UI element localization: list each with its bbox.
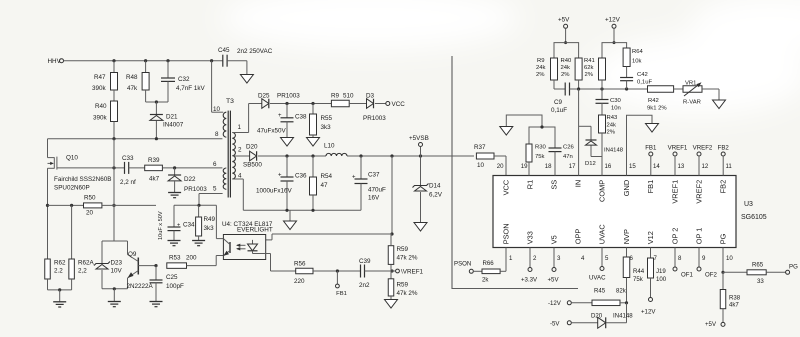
svg-text:SB500: SB500 [243,162,262,169]
svg-text:75k: 75k [535,154,545,160]
svg-text:75k: 75k [633,276,644,283]
svg-text:+: + [278,173,282,179]
svg-text:-5V: -5V [550,321,560,328]
svg-text:47: 47 [321,182,329,189]
svg-text:20: 20 [497,163,504,170]
svg-text:R66: R66 [483,260,495,267]
resistor R64 [623,48,630,67]
wire divider rail [570,88,648,90]
svg-text:2,2: 2,2 [78,268,87,275]
svg-text:17: 17 [569,163,576,170]
ground Q9 [108,301,121,303]
wire C45 to ground [227,60,247,62]
svg-text:+3.3V: +3.3V [521,277,538,284]
svg-text:47uFx50V: 47uFx50V [257,128,287,135]
svg-text:C45: C45 [218,47,230,54]
svg-text:R62: R62 [54,260,66,267]
wire T3 pin10 lead [211,61,213,112]
svg-text:\VREF1: \VREF1 [401,269,424,276]
svg-text:SPU02N60P: SPU02N60P [54,185,90,192]
svg-text:R9: R9 [537,58,545,64]
wire LED pull-up drop [391,156,393,234]
svg-text:12: 12 [702,163,709,170]
svg-text:C32: C32 [178,76,190,83]
svg-text:4k7: 4k7 [729,302,739,309]
wire T3 pin5 lead [199,193,223,195]
wire R48-C32 bottom [146,101,168,103]
wire HHV rail [64,60,223,62]
svg-text:4: 4 [238,173,242,180]
svg-text:+5V: +5V [548,277,560,284]
svg-text:R50: R50 [84,195,96,202]
svg-text:PSON: PSON [502,223,511,244]
resistor R66 [473,270,482,272]
capacitor C42 [626,67,628,78]
svg-text:VREF2: VREF2 [695,180,704,204]
capacitor C32 [167,61,169,78]
svg-text:SS: SS [550,180,559,190]
svg-text:82k: 82k [616,288,627,295]
svg-text:+: + [278,113,282,119]
resistor R62 [45,259,51,279]
svg-text:OP 1: OP 1 [695,228,704,245]
wire source sense rail [47,168,49,259]
svg-text:470uF: 470uF [368,187,386,194]
svg-text:C9: C9 [554,99,563,106]
resistor R56 [296,268,313,274]
svg-text:D12: D12 [585,161,596,167]
resistor R49 [198,205,200,217]
svg-text:L10: L10 [324,143,335,150]
svg-text:R56: R56 [294,261,306,268]
wire T3 pin4 lead [233,178,243,180]
capacitor C34 [168,226,181,228]
svg-text:NVP: NVP [622,229,631,244]
wire GND pin branch [627,115,653,175]
resistor R39 [129,167,145,169]
svg-text:510: 510 [343,93,354,100]
diode D25 [249,103,262,105]
resistor R40 [113,90,115,101]
resistor R38 [722,272,724,289]
resistor R53 [167,263,187,269]
diode D20 IN4148 [571,322,597,324]
node VCC terminal [386,102,390,106]
optocoupler U4 LED [252,240,254,244]
svg-text:D21: D21 [166,114,178,121]
diode D22 [174,168,176,175]
svg-text:390k: 390k [92,85,107,92]
node UVAC terminal [601,248,603,267]
wire T3 pin1 lead [233,132,249,134]
resistor R48 [145,61,147,73]
transformer T3 aux winding [223,168,226,189]
diode D21 [155,102,157,115]
svg-text:10n: 10n [611,106,621,112]
resistor R54 [312,156,314,177]
inductor L10 [326,153,347,156]
svg-text:C37: C37 [368,172,380,179]
capacitor C33 [124,162,126,174]
svg-text:Q10: Q10 [66,155,78,162]
ground C25 [150,301,163,303]
capacitor C30 [601,89,603,100]
svg-text:D25: D25 [258,93,270,100]
svg-text:R55: R55 [321,115,333,122]
svg-text:R41: R41 [584,58,595,64]
svg-text:2N2222A: 2N2222A [127,283,154,290]
svg-text:3k3: 3k3 [204,225,215,232]
svg-text:0,1uF: 0,1uF [637,80,652,86]
svg-text:6,2V: 6,2V [429,192,443,199]
svg-text:R38: R38 [729,295,741,302]
svg-text:OF1: OF1 [681,272,693,279]
zener D23 [101,241,103,264]
svg-text:PG: PG [719,233,728,244]
diode D3 [349,103,366,105]
wire COMP pin line [601,133,603,176]
diode D12 [590,126,592,140]
svg-text:R49: R49 [204,216,216,223]
svg-text:R59: R59 [397,246,409,253]
wire SS branch [506,115,542,144]
svg-text:VREF1: VREF1 [668,145,688,152]
wire R50 row [48,204,84,206]
node OF1 terminal [674,248,676,268]
svg-text:FB1: FB1 [336,291,347,297]
resistor R9 24k [551,58,558,80]
svg-text:R-VAR: R-VAR [683,100,701,106]
svg-text:+5V: +5V [705,321,717,328]
svg-text:+: + [352,175,356,181]
svg-text:10: 10 [477,162,485,169]
svg-text:100: 100 [656,276,667,283]
svg-text:GND: GND [622,180,631,196]
diode D20 SB500 [233,155,250,157]
ground R62 [53,301,66,303]
wire 5VSB row right [347,155,474,157]
resistor R59 upper [388,246,394,265]
node PG terminal [786,270,790,274]
svg-text:33: 33 [757,278,764,285]
svg-text:390k: 390k [93,115,108,122]
svg-text:SG6105: SG6105 [741,214,767,221]
svg-text:11: 11 [726,163,733,170]
ground R49 [192,240,205,242]
wire gate rail [48,138,223,140]
resistor J19 [650,248,652,259]
svg-text:PG: PG [789,264,798,271]
svg-text:18: 18 [545,163,552,170]
node FB1 tap [336,271,338,284]
wire 5V tee [554,43,579,58]
svg-text:Q9: Q9 [128,251,137,258]
svg-text:200: 200 [186,255,197,262]
svg-text:R54: R54 [321,173,333,180]
capacitor C26 [549,147,562,149]
svg-text:OF2: OF2 [705,272,717,279]
svg-text:FB2: FB2 [718,145,730,152]
node OF2 terminal [698,248,700,268]
svg-text:D14: D14 [429,183,441,190]
ground C38 [281,138,294,147]
transformer T3 primary winding [223,112,226,137]
svg-text:100pF: 100pF [166,283,184,290]
svg-text:C38: C38 [295,114,307,121]
resistor R30 [526,144,532,162]
svg-text:47n: 47n [563,154,573,160]
svg-text:V5: V5 [550,235,559,244]
svg-text:R65: R65 [752,262,764,269]
resistor R37 [476,153,494,159]
svg-text:-12V: -12V [548,300,562,307]
svg-text:0,1uF: 0,1uF [551,107,567,114]
svg-text:2: 2 [238,147,242,154]
svg-text:PR1003: PR1003 [184,186,207,193]
svg-text:D20: D20 [246,144,258,151]
svg-text:1: 1 [238,124,242,131]
svg-text:10: 10 [726,255,733,262]
svg-text:IN4148: IN4148 [613,313,633,320]
svg-text:R53: R53 [169,255,181,262]
ground D14 [414,223,427,232]
svg-text:D3: D3 [366,93,375,100]
ground R55 [307,138,320,147]
svg-text:2.2: 2.2 [54,268,63,275]
svg-text:2%: 2% [536,72,545,78]
svg-text:R48: R48 [126,74,138,81]
svg-text:Fairchild SSS2N60B: Fairchild SSS2N60B [54,176,111,183]
svg-text:R30: R30 [535,145,547,151]
svg-text:10V: 10V [111,268,123,275]
wire LED anode run [272,233,392,235]
svg-text:1000uFx16V: 1000uFx16V [256,188,293,195]
resistor R42 [648,86,674,93]
svg-text:FB1: FB1 [646,180,655,194]
svg-text:16: 16 [605,163,612,170]
svg-text:+12V: +12V [641,309,656,316]
svg-text:8: 8 [215,131,219,138]
resistor R47 [113,61,115,73]
svg-text:2%: 2% [607,130,616,136]
svg-text:VREF2: VREF2 [693,145,713,152]
capacitor C39 [360,265,362,278]
svg-text:10uF x 50V: 10uF x 50V [158,211,164,240]
svg-text:UVAC: UVAC [589,275,606,282]
svg-text:10k: 10k [632,59,642,65]
resistor R43 [599,115,606,133]
svg-text:C34: C34 [183,222,195,229]
transistor Q10 [48,157,55,159]
svg-text:D23: D23 [111,260,123,267]
svg-text:2%: 2% [561,72,570,78]
svg-text:R37: R37 [474,144,486,151]
svg-text:U3: U3 [744,201,753,208]
svg-text:9k1 2%: 9k1 2% [647,106,667,112]
svg-text:+5VSB: +5VSB [409,135,429,142]
svg-text:R62A: R62A [78,260,95,267]
svg-text:C36: C36 [295,173,307,180]
capacitor C9 [554,88,565,90]
optocoupler U4 box [223,235,265,260]
svg-text:13: 13 [678,163,685,170]
svg-text:D20: D20 [591,313,603,320]
svg-text:OPP: OPP [574,229,583,245]
wire opto collector drop [215,205,217,238]
node +12V out terminal [649,298,653,302]
svg-text:5: 5 [213,186,217,193]
svg-text:2n2: 2n2 [359,282,370,289]
wire C39 to VREF1 node [365,270,393,272]
svg-text:R44: R44 [633,268,645,275]
svg-text:3k3: 3k3 [321,124,332,131]
resistor R59 lower [390,271,392,279]
svg-text:J19: J19 [656,268,666,275]
wire x114 vertical [113,139,115,241]
wire Q9 box bottom [102,288,128,290]
capacitor C36 [286,156,288,177]
wire 5VSB row [258,155,326,157]
svg-text:VCC: VCC [502,179,511,195]
svg-text:62k: 62k [584,65,594,71]
svg-text:VR1: VR1 [685,81,696,87]
svg-text:OP 2: OP 2 [671,228,680,245]
transformer T3 secondary winding [232,133,235,180]
svg-text:47k 2%: 47k 2% [397,255,418,262]
svg-text:UVAC: UVAC [598,224,607,245]
svg-text:R39: R39 [148,157,160,164]
resistor R9 510 [331,100,349,107]
wire LED cathode run [266,253,271,255]
resistor R50 [84,203,102,208]
capacitor C45 [222,55,224,67]
node VREF1 output [392,270,396,272]
ground C34 [168,240,181,242]
node +5V out terminal [553,248,555,268]
svg-text:COMP: COMP [598,180,607,202]
potentiometer VR1 [674,88,683,90]
wire opto emitter [187,265,217,267]
svg-text:16V: 16V [368,195,380,202]
svg-text:V33: V33 [526,231,535,244]
ground R59 [385,300,398,309]
svg-text:FB1: FB1 [645,145,657,152]
zener D14 [420,156,422,186]
svg-text:+5V: +5V [558,17,570,24]
ground U3 GND [646,124,659,133]
resistor R55 [312,104,314,115]
svg-text:C39: C39 [359,258,371,265]
wire IN pin line [578,89,580,176]
svg-text:C25: C25 [166,274,178,281]
svg-text:R40: R40 [95,103,107,110]
svg-text:4,7nF 1kV: 4,7nF 1kV [176,85,206,92]
svg-text:R42: R42 [648,98,659,104]
svg-text:20: 20 [86,210,94,217]
capacitor C37 [360,156,362,179]
wire secondary ground rail [243,209,361,211]
ground VR1 [713,100,726,109]
svg-text:R64: R64 [632,49,644,55]
svg-text:47k: 47k [127,85,138,92]
transformer T3 core [227,111,229,198]
svg-text:EVERLIGHT: EVERLIGHT [237,227,273,234]
wire C34 row [174,204,216,206]
node +5V PG terminal [721,322,725,326]
ground SS branch [500,127,513,136]
svg-text:R1: R1 [526,180,535,189]
svg-text:PR1003: PR1003 [363,115,386,122]
svg-text:15: 15 [629,163,636,170]
svg-text:+: + [177,223,180,229]
svg-text:V12: V12 [646,231,655,244]
svg-text:24k: 24k [536,65,546,71]
svg-text:R45: R45 [594,288,606,295]
op-amp U3 body [493,176,736,248]
svg-text:PSON: PSON [454,261,471,268]
svg-text:FB2: FB2 [719,180,728,194]
svg-text:IN4007: IN4007 [163,122,184,129]
svg-text:C26: C26 [563,145,575,151]
svg-text:T3: T3 [226,98,234,105]
svg-text:R43: R43 [607,115,619,121]
svg-text:2k: 2k [482,277,489,284]
wire 12V tee [602,43,627,58]
svg-text:R47: R47 [94,74,106,81]
resistor R65 [747,270,766,275]
resistor R62A [71,205,73,259]
svg-text:D22: D22 [184,176,196,183]
wire Q9 box top [102,240,128,242]
svg-text:VCC: VCC [392,101,406,108]
svg-text:6: 6 [213,161,217,168]
optocoupler U4 transistor [229,242,231,253]
svg-text:220: 220 [294,278,305,285]
transistor Q9 [127,241,129,255]
wire OPP loop [452,56,578,289]
svg-text:2,2 nf: 2,2 nf [120,179,136,186]
svg-text:IN: IN [574,180,583,187]
svg-text:24k: 24k [607,123,617,129]
svg-text:4k7: 4k7 [149,176,160,183]
ground secondary rail [284,221,297,230]
svg-text:2%: 2% [585,72,594,78]
capacitor C25 [154,264,157,267]
resistor R45 [571,302,592,304]
svg-text:PR1003: PR1003 [277,93,300,100]
node +3.3V terminal [529,248,531,268]
wire PG row [722,248,724,273]
svg-text:19: 19 [521,163,528,170]
svg-text:14: 14 [653,163,660,170]
svg-text:R59: R59 [397,282,409,289]
optocoupler U4 light arrows [237,244,246,246]
svg-text:IN4148: IN4148 [604,148,624,154]
svg-text:C30: C30 [610,98,622,104]
svg-text:24k: 24k [561,65,571,71]
resistor R41 62k [599,58,606,80]
wire R62 bottom [48,289,72,291]
svg-text:C33: C33 [122,155,134,162]
svg-text:+12V: +12V [605,17,621,24]
svg-text:47k 2%: 47k 2% [397,290,418,297]
ground C45 [240,75,253,84]
wire VCC row [270,103,331,105]
wire VR1 to ground [702,88,719,90]
capacitor C38 [286,104,288,118]
svg-text:C42: C42 [637,72,648,78]
svg-text:2n2 250VAC: 2n2 250VAC [237,48,273,55]
